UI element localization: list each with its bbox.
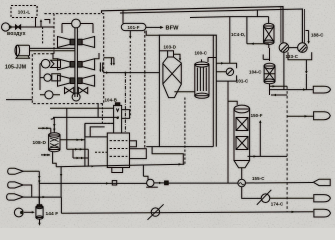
- stream flag out 2: [314, 112, 331, 120]
- wire flag A line: [23, 170, 39, 172]
- wire feed to 101-F: [122, 10, 124, 23]
- wire to flag 2: [287, 115, 313, 117]
- wire top bus branch 2: [120, 9, 302, 43]
- wire 174-C to flag: [270, 197, 313, 199]
- stream flag out 4: [314, 195, 331, 202]
- wire 108-D bottom: [41, 152, 56, 167]
- wire bottom bus: [61, 211, 313, 214]
- wire corner to chimney: [85, 123, 114, 136]
- svg-text:BFW: BFW: [166, 26, 180, 32]
- wire 144-F bottom vent: [38, 219, 40, 226]
- wire branch up with arrow: [40, 19, 42, 27]
- wire top bus: [102, 7, 284, 43]
- wire dashed drop to motor: [42, 27, 44, 44]
- wire dashed vertical x185: [184, 98, 186, 165]
- wire to flag 1: [270, 88, 313, 90]
- wire 103-D side loop: [174, 54, 182, 61]
- shaft motor to train: [30, 48, 75, 50]
- compressor shaft vertical: [75, 28, 78, 97]
- waste heat box: [159, 35, 216, 146]
- reactor 104-D: [264, 23, 274, 44]
- svg-text:104-C: 104-C: [249, 70, 262, 75]
- wire 188-C arrow: [306, 31, 310, 45]
- wire furnace dashed feed: [95, 151, 107, 153]
- wire suction bus y183: [39, 182, 146, 184]
- wire duct lower with arrow: [143, 163, 181, 176]
- valve 174-C: [257, 190, 272, 205]
- air inlet symbol: [2, 23, 12, 31]
- wire drop x66: [66, 108, 68, 149]
- wire flag C riser: [60, 197, 62, 213]
- aux pump circle left lower: [40, 64, 60, 90]
- compressor stage row 2: [53, 53, 99, 70]
- vessel 103-D: [163, 51, 181, 98]
- condensate pot 144-F: [36, 205, 43, 219]
- wire 100-C nozzles: [202, 58, 217, 63]
- wire 150-F side line: [248, 155, 288, 157]
- coupling bowtie left: [65, 87, 74, 93]
- bottom circle right: [72, 93, 80, 101]
- bottom circle left: [40, 91, 60, 99]
- wire 108-D side feed: [38, 127, 51, 133]
- exchanger 101-C: [226, 68, 233, 75]
- wire 104-B side loop: [122, 110, 130, 119]
- svg-text:155-C: 155-C: [252, 176, 265, 181]
- aux turbine circle left: [41, 59, 60, 68]
- svg-text:188-C: 188-C: [311, 33, 324, 38]
- motor 105-JM: [15, 45, 30, 58]
- svg-text:104-B: 104-B: [105, 97, 117, 102]
- inline orifice box: [112, 181, 116, 185]
- wire drop x98: [97, 104, 99, 118]
- stream flag in B: [8, 182, 24, 188]
- valve slashed on bottom bus: [148, 204, 164, 220]
- stream flag in A: [8, 168, 24, 174]
- flue duct step: [130, 149, 147, 159]
- inline strainer: [165, 181, 169, 185]
- wire 150-F side riser: [259, 120, 261, 156]
- wire drop x39: [38, 171, 40, 205]
- aux boiler 104-B chimney: [114, 103, 122, 133]
- wire dashed vertical x287: [286, 86, 288, 212]
- wire BFW arrow: [146, 26, 164, 29]
- steam drum 101-F: [121, 23, 146, 30]
- valve on air line: [16, 25, 21, 29]
- wire dashed drop x102: [102, 104, 113, 124]
- exchanger 133-C a: [279, 43, 289, 53]
- svg-text:101-L: 101-L: [18, 10, 31, 15]
- compressor stage row 3: [58, 75, 95, 86]
- stream flag in right: [313, 179, 330, 185]
- wire vertical x85: [84, 123, 86, 166]
- wire nested corner: [90, 127, 104, 137]
- svg-text:105-JJM: 105-JJM: [5, 64, 26, 70]
- wire column bypass: [227, 101, 229, 183]
- boiler 100-C: [195, 62, 209, 98]
- wire 102-D top feed: [53, 117, 55, 132]
- compressor unit dashed enclosure 105-J: [32, 14, 103, 104]
- wire flag C line: [23, 195, 61, 199]
- wire dashed vertical 144: [144, 31, 146, 149]
- wire furnace feed left: [85, 136, 107, 138]
- steam ladder rungs: [60, 139, 88, 167]
- svg-text:174-C: 174-C: [271, 202, 284, 207]
- svg-text:100-C: 100-C: [195, 51, 208, 56]
- wire 155-C to 174-C: [242, 187, 262, 199]
- wire long line y117: [51, 116, 119, 119]
- wire air line: [12, 26, 54, 28]
- drain inlet symbol: [14, 208, 23, 217]
- drum 102-D: [49, 133, 60, 152]
- wire 104-C top feed: [263, 48, 269, 61]
- svg-text:101-C: 101-C: [236, 79, 249, 84]
- wire riser x61: [60, 167, 62, 198]
- wire furnace side box: [130, 141, 137, 147]
- exchanger 155-C: [238, 179, 246, 187]
- wire feed into 103-D: [159, 50, 167, 52]
- svg-text:108-D: 108-D: [33, 140, 47, 146]
- wire flag B line: [23, 185, 32, 195]
- wire 101-C to 150-F: [228, 81, 237, 105]
- svg-text:150-F: 150-F: [251, 113, 263, 118]
- wire crossover line y73: [104, 71, 160, 73]
- wire dash-dot vertical 125: [124, 73, 126, 133]
- wire drop x306: [305, 60, 307, 90]
- svg-text:103-D: 103-D: [164, 45, 176, 50]
- wire down to 101-C: [229, 17, 231, 64]
- filter box 101-L: [11, 6, 37, 18]
- wire condensate header: [56, 164, 184, 167]
- svg-text:144 F: 144 F: [46, 211, 59, 217]
- stream flag in C: [7, 194, 24, 200]
- exchanger 133-C b: [298, 43, 308, 53]
- wire pump feed: [143, 176, 148, 179]
- compressor stage row 1: [58, 37, 95, 48]
- wire duct inner: [152, 147, 183, 165]
- wire 144-F top: [38, 197, 40, 204]
- wire drop x284: [283, 52, 285, 89]
- wire stubs box right edge: [99, 58, 115, 72]
- column 150-F: [234, 105, 250, 179]
- wire 104-C bottom lines: [270, 84, 288, 96]
- wire drain to 144-F: [24, 211, 35, 213]
- wire 133-C under-box: [288, 48, 312, 60]
- furnace 104-B body: [107, 133, 129, 173]
- wire 101-L drop: [35, 18, 37, 27]
- svg-text:101-F: 101-F: [128, 25, 140, 30]
- wire duct top: [146, 35, 213, 146]
- wire 101-F bottom stub: [129, 31, 131, 39]
- turbine circle top: [62, 19, 93, 33]
- wire line to 104-D tee: [190, 10, 269, 43]
- coupling bowtie right: [78, 87, 87, 93]
- wire dashed vertical from 101-F: [129, 41, 131, 117]
- wire 101-C loop: [216, 62, 236, 81]
- stream flag out 5: [314, 209, 331, 217]
- wire 103-D to 100-C: [174, 91, 194, 93]
- reactor 104-C: [264, 63, 275, 84]
- wire pump discharge: [154, 182, 165, 184]
- stream flag out 1: [313, 86, 330, 93]
- svg-text:воздух: воздух: [7, 31, 26, 37]
- wire discharge line to flag: [168, 182, 313, 185]
- wire line y108: [50, 107, 114, 109]
- svg-text:133-C: 133-C: [286, 54, 299, 59]
- svg-text:1C4-D,: 1C4-D,: [231, 32, 246, 37]
- wire 101-F drop to box: [146, 31, 159, 36]
- wire parallel drop lines to 133-C: [281, 7, 305, 43]
- pump 105: [146, 179, 158, 187]
- wire 104-D bottom arrow: [247, 43, 269, 49]
